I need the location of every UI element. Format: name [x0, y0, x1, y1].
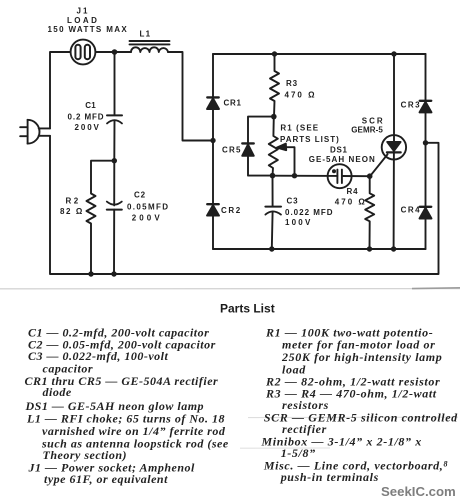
svg-text:CR5: CR5 [222, 146, 242, 155]
svg-text:diode: diode [43, 385, 72, 399]
svg-text:R3: R3 [286, 79, 298, 88]
svg-text:150 WATTS MAX: 150 WATTS MAX [48, 25, 129, 34]
svg-text:0.05MFD: 0.05MFD [127, 202, 169, 211]
node B: R1/CR5/C3/DS1 [270, 173, 276, 179]
diode CR3 [420, 101, 432, 113]
svg-text:C2: C2 [134, 190, 146, 199]
node A: R3/R1/CR5 [271, 114, 277, 120]
svg-text:470 Ω: 470 Ω [335, 197, 367, 206]
node: wiper tie [292, 173, 297, 178]
diode CR1 [207, 97, 219, 109]
svg-text:SeekIC.com: SeekIC.com [381, 484, 456, 499]
neon lamp DS1 [328, 164, 370, 188]
svg-text:push-in terminals: push-in terminals [280, 470, 379, 484]
parts list right column [261, 325, 459, 484]
potentiometer R1 [269, 117, 278, 176]
wire: left bridge leg [212, 54, 214, 249]
svg-text:C1: C1 [85, 101, 96, 110]
capacitor C1 [107, 52, 122, 161]
svg-text:100V: 100V [285, 218, 312, 227]
resistor R4 [365, 176, 374, 249]
node: C1/C2/R2 [112, 158, 117, 163]
socket J1 [71, 40, 96, 65]
parts list left column [25, 326, 229, 486]
capacitor C3 [265, 176, 281, 249]
svg-text:SCR: SCR [362, 116, 385, 125]
svg-text:DS1: DS1 [330, 145, 348, 154]
svg-text:type 61F, or equivalent: type 61F, or equivalent [44, 472, 168, 486]
wire: node B to DS1 [273, 175, 338, 177]
resistor R3 [270, 54, 279, 117]
svg-text:L1: L1 [140, 30, 152, 39]
node C: DS1/R4/gate [367, 173, 373, 179]
resistor R2 [87, 161, 115, 274]
svg-text:200V: 200V [75, 123, 101, 132]
svg-text:GEMR-5: GEMR-5 [351, 125, 383, 134]
svg-text:CR4: CR4 [401, 205, 422, 214]
svg-text:CR1: CR1 [224, 99, 242, 108]
node: R3 top [272, 51, 277, 56]
diode CR2 [207, 204, 219, 215]
node: C3 bottom [269, 246, 274, 251]
scan streak 1 [248, 416, 458, 418]
svg-text:R4: R4 [347, 187, 359, 196]
plug P (line cord) [20, 120, 50, 144]
wire: bottom rail [213, 248, 426, 250]
separator rule [0, 288, 460, 290]
diode CR5 [242, 117, 274, 176]
wire: bottom return line [50, 136, 439, 274]
wire: plug top to J1 [50, 52, 71, 128]
svg-text:PARTS LIST): PARTS LIST) [280, 135, 340, 144]
SCR GEMR-5 [382, 54, 406, 249]
svg-text:0.2 MFD: 0.2 MFD [68, 112, 105, 121]
node: J1/L1/C1 [112, 49, 118, 55]
node: C2 bottom [111, 271, 116, 276]
node: SCR anode top [391, 51, 396, 56]
scan streak 2 [240, 447, 330, 449]
svg-text:C3: C3 [287, 197, 299, 206]
svg-text:GE-5AH NEON: GE-5AH NEON [309, 155, 376, 164]
wiper arm of R1 [277, 144, 295, 176]
svg-text:meter for fan-motor load or: meter for fan-motor load or [282, 337, 435, 351]
svg-text:0.022 MFD: 0.022 MFD [285, 208, 334, 217]
wire: J1 to node J [95, 51, 131, 53]
node: output to CR3/CR4 leg [423, 140, 428, 145]
svg-text:470 Ω: 470 Ω [285, 91, 317, 100]
diode CR4 [420, 207, 432, 219]
svg-text:Parts List: Parts List [220, 302, 275, 316]
wire: right bridge leg [425, 54, 427, 249]
svg-text:R2: R2 [66, 197, 81, 206]
wire: top rail [213, 53, 426, 55]
wire: L1 to bridge input [168, 52, 213, 141]
svg-text:200V: 200V [132, 213, 163, 222]
node: SCR cathode bottom [391, 246, 396, 251]
svg-text:CR2: CR2 [221, 206, 242, 215]
inductor L1 [130, 41, 170, 52]
svg-text:82 Ω: 82 Ω [60, 207, 84, 216]
node: R2 bottom [88, 271, 93, 276]
svg-text:R1 (SEE: R1 (SEE [280, 124, 319, 133]
svg-text:J1: J1 [77, 7, 90, 16]
wire: gate lead [370, 154, 387, 175]
svg-text:CR3: CR3 [401, 101, 422, 110]
node: R4 bottom [367, 246, 372, 251]
node: bridge AC input left [210, 138, 215, 143]
schematic text labels [48, 7, 422, 228]
capacitor C2 [107, 161, 122, 274]
